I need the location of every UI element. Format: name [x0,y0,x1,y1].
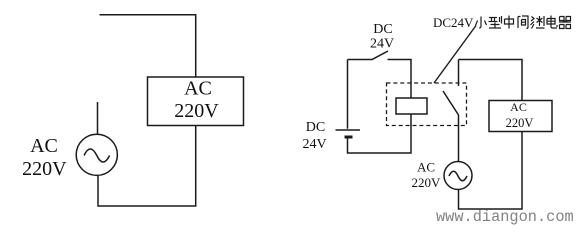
svg-text:DC: DC [306,120,325,135]
svg-text:AC: AC [417,160,435,175]
svg-text:DC: DC [373,22,392,37]
svg-text:220V: 220V [412,175,442,190]
svg-text:AC: AC [30,135,58,157]
svg-text:www.diangon.com: www.diangon.com [436,208,574,226]
svg-text:220V: 220V [506,116,534,130]
svg-text:AC: AC [184,78,212,100]
svg-text:220V: 220V [174,100,219,122]
svg-text:AC: AC [510,100,527,114]
svg-text:220V: 220V [22,158,67,180]
svg-text:24V: 24V [302,137,326,152]
svg-text:24V: 24V [370,37,394,52]
svg-text:DC24V: DC24V [433,15,474,30]
